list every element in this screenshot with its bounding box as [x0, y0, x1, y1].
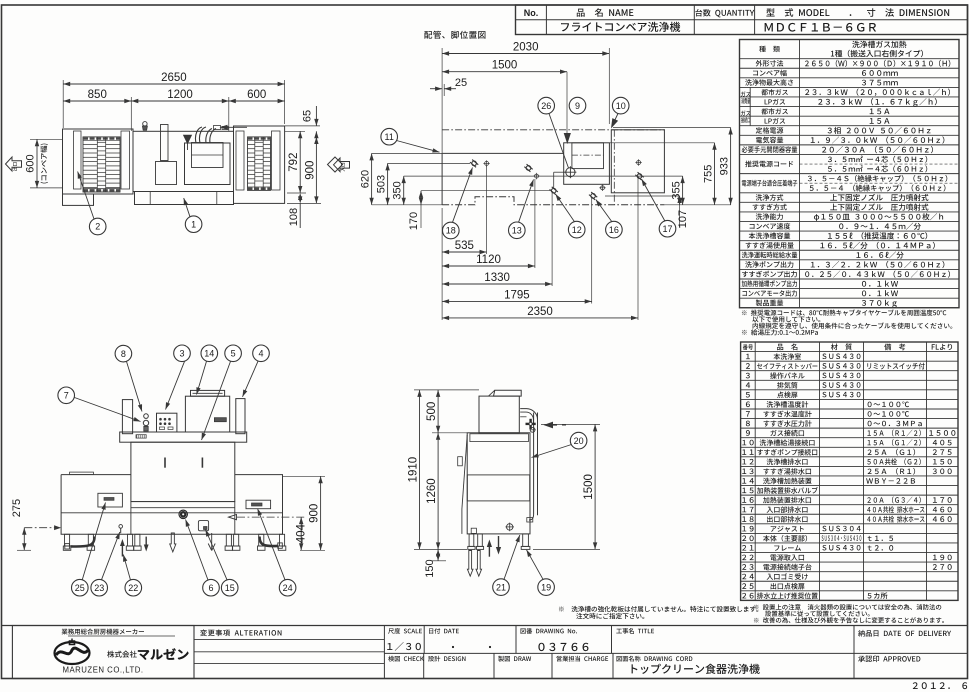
- parts row 24 入口ゴミ受け: [741, 571, 958, 573]
- balloon 22: [125, 579, 142, 596]
- parts row 5 点検扉: [741, 389, 958, 391]
- balloon 24: [279, 579, 296, 596]
- parts row 2 セイフティストッパー: [741, 360, 958, 362]
- piping bottom left ext: [372, 204, 443, 206]
- parts row 8 すすぎ水圧力計: [741, 418, 958, 420]
- svg-text:15: 15: [225, 583, 235, 593]
- dim 792: [299, 131, 301, 193]
- spec row: コンベア速度: [740, 221, 960, 223]
- dim 850: [63, 100, 131, 102]
- left end plates: [74, 131, 82, 189]
- balloon 12: [556, 194, 575, 222]
- pipe top elbow: [520, 409, 537, 426]
- svg-text:16: 16: [609, 225, 619, 235]
- machine body plan - left block: [63, 129, 134, 194]
- piping left ext lines: [372, 152, 443, 154]
- spec row: 洗浄運転時総給水量: [740, 249, 960, 251]
- balloon 19: [538, 579, 555, 596]
- spec row: 都市ガス: [740, 86, 960, 88]
- product name: [561, 22, 680, 32]
- svg-text:6: 6: [208, 583, 213, 593]
- side top band inner rect: [470, 434, 529, 442]
- spec row: すすぎ方式: [740, 201, 960, 203]
- title cell: [616, 628, 654, 634]
- legs front: [65, 534, 70, 546]
- svg-text:MARUZEN CO.,LTD.: MARUZEN CO.,LTD.: [62, 666, 143, 675]
- dim 620: [371, 153, 373, 204]
- control panel box: [157, 413, 177, 432]
- spec row: 外形寸法: [740, 58, 960, 60]
- hood side lines extended: [131, 501, 235, 503]
- svg-text:850: 850: [88, 89, 107, 101]
- dim 1330: [442, 283, 552, 285]
- svg-text:8: 8: [121, 349, 126, 359]
- svg-text:11: 11: [385, 132, 394, 142]
- balloon 18: [453, 168, 473, 223]
- piping bottom ext lines: [441, 208, 443, 320]
- svg-text:355: 355: [671, 181, 683, 199]
- maker tagline: [62, 629, 144, 635]
- balloon 3: [174, 345, 191, 362]
- piping left top edge: [442, 152, 564, 154]
- dim 108: [299, 203, 301, 228]
- svg-text:14: 14: [204, 349, 214, 359]
- balloon 25: [72, 579, 89, 596]
- side view note: [559, 606, 758, 612]
- black down arrow drain: [145, 537, 147, 546]
- svg-text:65: 65: [302, 110, 314, 122]
- spec row: 電気容量: [740, 134, 960, 136]
- extension lines plan top: [62, 80, 64, 128]
- svg-text:1500: 1500: [492, 60, 518, 72]
- balloon 20: [570, 432, 587, 449]
- open down arrow 2: [211, 533, 213, 551]
- svg-text:20: 20: [574, 436, 584, 446]
- pipe valve cross: [526, 423, 536, 425]
- parts row 13 すすぎ湯排水口: [741, 465, 958, 467]
- side white down arrows: [467, 551, 473, 577]
- parts header row: [743, 344, 753, 350]
- drawing cord cell: [617, 656, 693, 662]
- spec gas group label ガス: [741, 91, 750, 96]
- approved cell: [858, 655, 920, 662]
- exhaust label dark: [214, 418, 226, 422]
- plan right block: [234, 126, 285, 203]
- spec row: 都市ガス: [740, 106, 960, 108]
- dim 500: [437, 390, 439, 433]
- svg-text:620: 620: [360, 170, 372, 188]
- left drain hose: [71, 537, 95, 547]
- heater box piping: [564, 143, 610, 185]
- svg-text:404: 404: [296, 524, 308, 544]
- date cell: [429, 628, 459, 634]
- svg-text:275: 275: [11, 499, 23, 517]
- conveyor width label: [40, 144, 48, 184]
- svg-text:1330: 1330: [484, 272, 510, 284]
- vent pipe box: [156, 162, 177, 185]
- piping outline back edge dashed: [442, 129, 665, 131]
- pipe 12 symbol: [549, 186, 558, 195]
- front right pillar: [236, 399, 245, 434]
- dim 1120: [442, 265, 535, 267]
- svg-text:350: 350: [392, 181, 404, 199]
- svg-text:755: 755: [703, 165, 715, 183]
- svg-text:19: 19: [541, 582, 551, 592]
- side main body: [467, 433, 530, 534]
- dim 1795: [442, 300, 592, 302]
- exhaust box front: [185, 396, 229, 432]
- front left pillar: [122, 400, 132, 434]
- charge cell: [557, 656, 609, 662]
- fitting rects top: [214, 126, 221, 130]
- parts row 6 洗浄槽温度計: [741, 398, 958, 400]
- spec row: 必要手元開閉器容量: [740, 144, 960, 146]
- parts row 18 出口部排水口: [741, 513, 958, 515]
- piping ext lines top: [441, 48, 443, 153]
- balloon 13: [519, 180, 534, 223]
- dim 170: [420, 191, 422, 205]
- side black down arrow: [498, 536, 500, 549]
- svg-text:10: 10: [616, 101, 626, 111]
- svg-text:17: 17: [662, 224, 672, 234]
- balloon 14: [201, 345, 218, 362]
- parts row 26 排水立上げ推奨位置: [741, 590, 958, 592]
- dim 107: [679, 196, 681, 205]
- svg-text:792: 792: [288, 153, 300, 172]
- hood tick marks: [164, 458, 166, 468]
- balloon 7: [58, 387, 75, 404]
- spec row: 本洗浄槽容量: [740, 230, 960, 232]
- svg-text:1500: 1500: [583, 474, 595, 500]
- dim 1200: [131, 100, 229, 102]
- balloon 10: [612, 97, 629, 114]
- right end plates: [236, 131, 244, 190]
- svg-text:25: 25: [455, 77, 467, 89]
- svg-text:18: 18: [446, 226, 456, 236]
- heater large box plan: [185, 143, 231, 185]
- shoulder hatch: [136, 435, 146, 438]
- dim 933: [730, 128, 732, 205]
- dim 600 top: [229, 100, 285, 102]
- issue date: [913, 682, 967, 689]
- pipe 18 symbols: [470, 159, 479, 168]
- dim 25: [430, 88, 442, 90]
- shoulder band: [120, 432, 247, 442]
- spec row: LPガス: [740, 115, 960, 117]
- balloon 23: [91, 579, 108, 596]
- model number: [765, 23, 876, 32]
- svg-text:600: 600: [25, 154, 37, 172]
- terminal screw 23: [119, 525, 123, 529]
- parts row 14 洗浄槽加熱装置: [741, 475, 958, 477]
- balloon 9: [569, 97, 586, 114]
- dim 1260: [437, 433, 439, 550]
- dim 350: [403, 176, 405, 205]
- spec row: すすぎポンプ出力: [740, 268, 960, 270]
- dim 900: [315, 137, 317, 203]
- dim 600 conveyor width: [36, 139, 38, 188]
- dim 535: [442, 251, 486, 253]
- piping view label: [424, 31, 485, 39]
- parts row 9 ガス接続口: [741, 427, 958, 429]
- svg-text:900: 900: [304, 161, 316, 180]
- svg-text:170: 170: [408, 212, 420, 230]
- balloon 8: [115, 345, 132, 362]
- parts row 3 操作パネル: [741, 370, 958, 372]
- spec row: コンベア幅: [740, 67, 960, 69]
- svg-text:107: 107: [677, 210, 689, 228]
- spec row: 定格電源: [740, 125, 960, 127]
- scale cell: [388, 628, 422, 634]
- side legs: [469, 534, 474, 547]
- parts row 7 すすぎ水温度計: [741, 408, 958, 410]
- svg-text:13: 13: [512, 226, 522, 236]
- small chimney symbol: [143, 122, 147, 126]
- right conveyor hatch: [248, 137, 271, 191]
- right drain hose: [260, 537, 278, 547]
- svg-text:3: 3: [179, 349, 184, 359]
- vent pipe: [161, 125, 169, 161]
- piping bottom edge: [442, 197, 664, 205]
- balloon 5: [225, 345, 242, 362]
- side left slant: [462, 435, 467, 509]
- parts row 12 洗浄槽排水口: [741, 456, 958, 458]
- dim 755: [714, 143, 716, 205]
- black left arrow side: [550, 424, 557, 426]
- parts row 22 電源取入口: [741, 552, 958, 554]
- balloon 21: [493, 579, 510, 596]
- svg-text:108: 108: [288, 208, 300, 226]
- box 15: [198, 521, 208, 531]
- svg-text:1120: 1120: [476, 254, 501, 266]
- check cell: [388, 656, 424, 662]
- piping left edge: [441, 153, 443, 204]
- parts row 1 本洗浄室: [741, 351, 958, 353]
- svg-text:22: 22: [128, 583, 138, 593]
- parts row 16 加熱装置排水口: [741, 494, 958, 496]
- svg-text:12: 12: [572, 225, 582, 235]
- balloon 15: [221, 579, 238, 596]
- spec row: すすぎ湯使用量: [740, 240, 960, 242]
- parts row 17 入口部排水口: [741, 504, 958, 506]
- pipe small circle fitting: [530, 427, 535, 432]
- svg-text:535: 535: [455, 240, 474, 252]
- body inner line: [61, 512, 282, 514]
- exit arrow symbol: [6, 157, 22, 171]
- pipe 16 symbols: [589, 192, 598, 201]
- svg-text:26: 26: [541, 101, 551, 111]
- left lip: [70, 472, 94, 475]
- svg-text:4: 4: [258, 349, 263, 359]
- svg-text:600: 600: [247, 89, 266, 101]
- spec row: コンベアモータ出力: [740, 288, 960, 290]
- spec row: 電源端子台適合圧着端子: [740, 173, 960, 175]
- spec row: 洗浄物最大高さ: [740, 77, 960, 79]
- plan middle skirt: [135, 192, 234, 205]
- svg-text:1795: 1795: [504, 289, 530, 301]
- svg-text:No.: No.: [524, 8, 539, 18]
- parts row 15 加熱装置排水バルブ: [741, 485, 958, 487]
- dim 503: [387, 163, 389, 204]
- hose arcs: [195, 127, 202, 143]
- svg-text:500: 500: [426, 402, 438, 421]
- svg-text:9: 9: [575, 101, 580, 111]
- parts row 10 洗浄槽給湯接続口: [741, 437, 958, 439]
- dim 275: [23, 528, 25, 551]
- parts row 11 すすぎポンプ接続口: [741, 446, 958, 448]
- dim 404: [300, 517, 302, 550]
- balloon 4: [253, 345, 270, 362]
- svg-text:1200: 1200: [167, 89, 193, 101]
- svg-text:23: 23: [94, 583, 104, 593]
- pipe 17 symbols: [637, 161, 641, 165]
- company logo box: [12, 626, 194, 679]
- maruzen logo mark: [55, 642, 90, 664]
- spec notes: [742, 310, 946, 316]
- svg-text:5: 5: [231, 349, 236, 359]
- parts row 21 フレーム: [741, 542, 958, 544]
- piping right box: [611, 130, 664, 193]
- title block: [2, 625, 968, 627]
- svg-text:900: 900: [309, 504, 321, 523]
- funnel black triangle: [184, 135, 192, 143]
- side dims ext lines: [414, 389, 479, 391]
- svg-text:25: 25: [75, 583, 85, 593]
- side exhaust cap: [494, 390, 522, 396]
- inlet arrow symbol: [334, 158, 350, 172]
- ext lines plan right: [285, 125, 320, 127]
- svg-text:21: 21: [496, 582, 506, 592]
- rinse pipe 20: [533, 413, 535, 515]
- spec row: 加熱用循環ポンプ出力: [740, 278, 960, 280]
- drain knob 6: [179, 510, 187, 518]
- dim 2350: [442, 317, 638, 319]
- maruzen company name: [107, 651, 137, 658]
- svg-text:503: 503: [376, 175, 388, 193]
- side black up arrow: [488, 544, 490, 557]
- svg-text:150: 150: [424, 559, 436, 577]
- balloon 26: [538, 97, 555, 114]
- exhaust cap: [191, 390, 225, 396]
- spec row: 洗浄ポンプ出力: [740, 259, 960, 261]
- svg-text:2650: 2650: [161, 72, 187, 84]
- plan middle block: [133, 131, 234, 191]
- spec row: 種 類: [759, 46, 780, 52]
- thermometer circles: [144, 414, 149, 419]
- svg-text:1910: 1910: [408, 457, 420, 483]
- drawing title text: [631, 664, 759, 674]
- alteration box: [193, 626, 195, 679]
- balloon 2: [78, 172, 94, 220]
- door 24: [246, 500, 271, 509]
- balloon 11: [381, 128, 398, 145]
- side small box bottom left: [471, 528, 476, 533]
- balloon 6: [203, 579, 220, 596]
- svg-text:1260: 1260: [426, 478, 438, 504]
- dim 65: [315, 106, 317, 126]
- main body front: [61, 475, 282, 535]
- header QUANTITY label: [695, 9, 754, 17]
- left conveyor hatch: [0, 0, 1, 1]
- draw cell: [498, 656, 531, 662]
- flow arrow plan: [222, 126, 247, 128]
- heater inner box plan: [192, 143, 224, 168]
- parts row 4 排気筒: [741, 379, 958, 381]
- dim 900 front: [283, 475, 326, 477]
- balloon 17: [642, 179, 665, 221]
- spec row: LPガス: [740, 96, 960, 98]
- parts row 25 出口点検扉: [741, 580, 958, 582]
- spec row: 製品重量: [740, 297, 960, 299]
- balloon 1: [184, 198, 190, 217]
- hood body: [131, 442, 235, 501]
- parts notes: [754, 604, 941, 610]
- side exhaust duct: [479, 396, 519, 433]
- parts row 20 本体（主要部）: [741, 532, 958, 534]
- balloon 10 pointer: [612, 114, 618, 127]
- spec row: 洗浄方式: [740, 192, 960, 194]
- dim 1500 top: [442, 71, 567, 73]
- svg-text:2030: 2030: [513, 42, 539, 54]
- spec row: 洗浄能力: [740, 211, 960, 213]
- pipe 13 symbols: [524, 164, 533, 173]
- dim 2030: [442, 53, 609, 55]
- design cell: [428, 656, 465, 662]
- balloon 16: [596, 200, 612, 222]
- parts row 19 アジャスト: [741, 523, 958, 525]
- svg-text:1: 1: [191, 219, 196, 229]
- dim 1500 side: [541, 423, 600, 425]
- side small switch box: [458, 457, 463, 466]
- svg-text:7: 7: [64, 391, 69, 401]
- svg-text:933: 933: [719, 157, 731, 175]
- drawing no cell: [521, 628, 577, 634]
- orientation diamond: [328, 157, 343, 172]
- dim 2650: [63, 83, 284, 85]
- white down arrow 1: [170, 533, 176, 552]
- dim 1910: [419, 390, 421, 550]
- power inlet arrow 22 up: [121, 543, 123, 557]
- svg-text:24: 24: [283, 583, 293, 593]
- side circle cross mark: [507, 524, 513, 530]
- spec row: 推奨電源コード: [740, 153, 960, 155]
- dim 150: [437, 549, 439, 560]
- svg-text:2: 2: [95, 222, 100, 232]
- header MODEL DIMENSION label: [766, 8, 949, 17]
- parts row 23 電源接続端子台: [741, 561, 958, 563]
- spec gas group label ガス: [741, 110, 750, 115]
- header NAME label: [577, 8, 634, 17]
- balloon 9 pointer: [566, 72, 568, 138]
- door 25: [98, 493, 123, 507]
- dim 355: [682, 176, 684, 205]
- piping right ext lines: [609, 142, 714, 144]
- title header table: [516, 5, 968, 35]
- gas connection circle-cross: [566, 168, 575, 177]
- date of delivery cell: [858, 630, 951, 637]
- side door rect: [467, 475, 529, 501]
- svg-text:2350: 2350: [527, 306, 553, 318]
